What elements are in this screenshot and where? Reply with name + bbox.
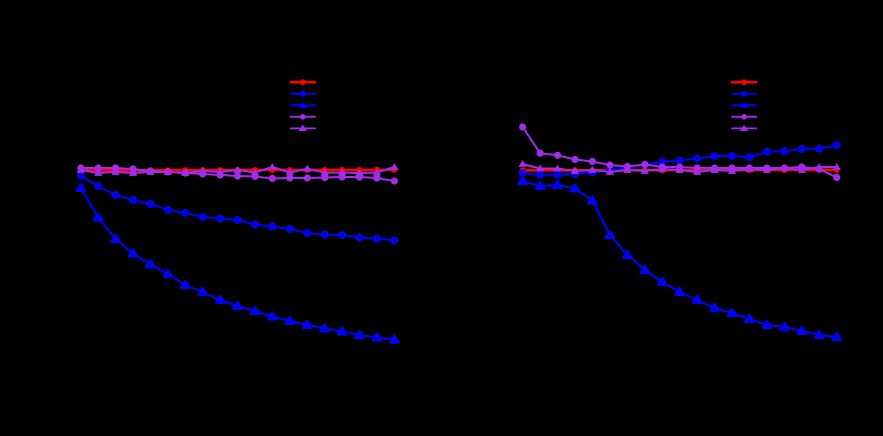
left plot: blue triangle series xyxy=(81,188,395,340)
legend row: red circle xyxy=(732,81,756,84)
right plot: purple triangle series xyxy=(523,164,837,172)
right plot: blue circle series xyxy=(523,145,837,175)
legend row: purple triangle xyxy=(291,127,315,129)
legend row: red circle xyxy=(291,81,315,84)
legend row: blue circle xyxy=(291,93,315,95)
left plot: blue circle series xyxy=(81,176,395,240)
legend row: blue circle xyxy=(732,93,756,95)
legend row: purple circle xyxy=(732,116,756,118)
right plot: blue triangle series xyxy=(523,181,837,337)
right plot: red baseline xyxy=(523,169,837,172)
right plot: purple circle series xyxy=(523,127,837,178)
legend row: blue triangle xyxy=(291,104,315,106)
legend row: blue triangle xyxy=(732,104,756,106)
legend row: purple triangle xyxy=(732,127,756,129)
legend row: purple circle xyxy=(291,116,315,118)
left plot: red baseline xyxy=(81,169,394,172)
left plot: purple circle series xyxy=(81,168,395,181)
left plot: purple triangle series xyxy=(81,167,395,173)
